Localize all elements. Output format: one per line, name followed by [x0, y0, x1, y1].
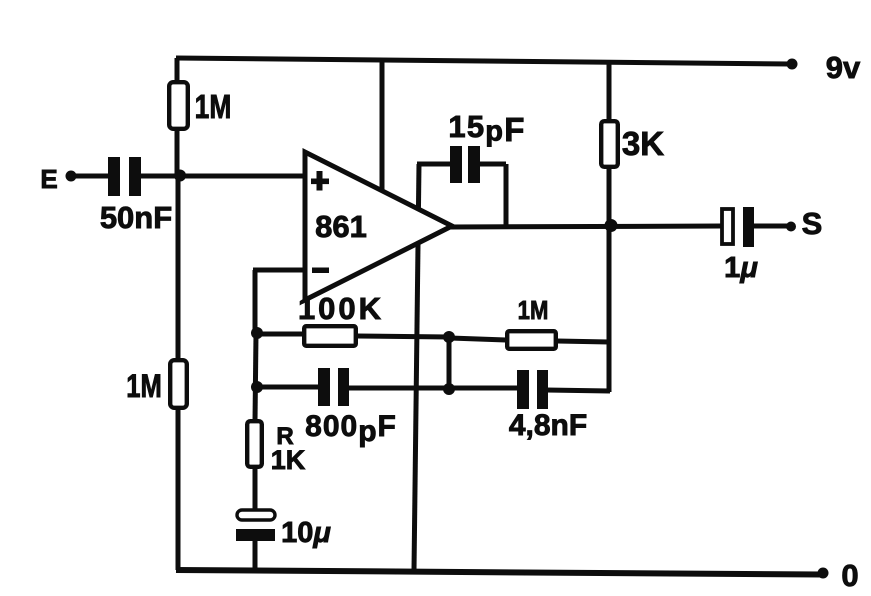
svg-text:1M: 1M — [518, 296, 549, 325]
svg-text:0: 0 — [841, 558, 858, 593]
svg-text:10μ: 10μ — [281, 517, 331, 549]
svg-text:800pF: 800pF — [305, 410, 397, 448]
svg-text:S: S — [802, 206, 823, 241]
svg-text:1K: 1K — [271, 445, 306, 475]
svg-text:E: E — [40, 164, 57, 194]
svg-text:15pF: 15pF — [448, 109, 525, 148]
svg-text:4,8nF: 4,8nF — [509, 409, 587, 442]
svg-text:1μ: 1μ — [724, 252, 758, 284]
svg-text:100K: 100K — [298, 291, 384, 326]
svg-text:1M: 1M — [195, 89, 232, 125]
svg-text:50nF: 50nF — [100, 200, 172, 235]
svg-text:861: 861 — [315, 209, 367, 244]
svg-text:3K: 3K — [622, 125, 664, 162]
svg-text:9v: 9v — [826, 50, 861, 85]
svg-text:1M: 1M — [126, 369, 162, 404]
